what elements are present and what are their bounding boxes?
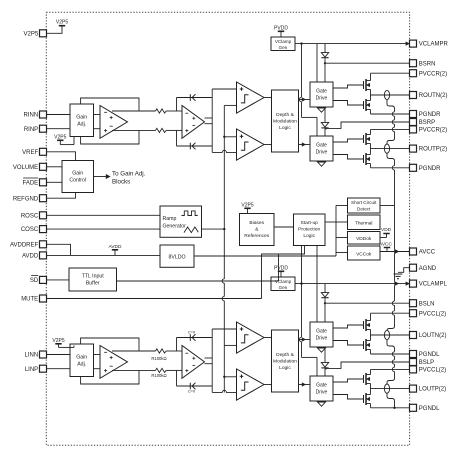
svg-text:Logic: Logic xyxy=(303,233,315,239)
svg-text:Logic: Logic xyxy=(279,125,291,131)
svg-text:BSRN: BSRN xyxy=(419,61,436,67)
svg-text:Drive: Drive xyxy=(316,150,328,156)
svg-text:PVDD: PVDD xyxy=(274,26,288,32)
svg-text:VDD: VDD xyxy=(381,227,392,233)
svg-text:LINN: LINN xyxy=(25,353,39,359)
svg-text:References: References xyxy=(244,233,270,239)
svg-text:Buffer: Buffer xyxy=(86,281,100,287)
svg-text:BSRP: BSRP xyxy=(419,120,435,126)
svg-text:PVCCR(2): PVCCR(2) xyxy=(419,128,447,134)
svg-text:V2P5: V2P5 xyxy=(56,20,68,26)
svg-text:PGNDL: PGNDL xyxy=(419,352,440,358)
svg-text:VCLAMPL: VCLAMPL xyxy=(419,282,448,288)
svg-text:Modulation: Modulation xyxy=(273,119,297,125)
svg-text:VCCok: VCCok xyxy=(356,252,372,258)
svg-text:AVCC: AVCC xyxy=(379,241,393,247)
svg-text:AVCC: AVCC xyxy=(419,250,436,256)
svg-text:LINP: LINP xyxy=(25,367,38,373)
svg-text:Detect: Detect xyxy=(357,207,371,212)
svg-text:PGNDR: PGNDR xyxy=(419,166,441,172)
svg-text:Gain: Gain xyxy=(76,115,87,121)
svg-text:RINN: RINN xyxy=(24,113,39,119)
svg-text:R100kΩ: R100kΩ xyxy=(151,356,166,361)
svg-text:PGNDL: PGNDL xyxy=(419,406,440,412)
svg-text:Gain: Gain xyxy=(72,171,83,177)
svg-text:Gate: Gate xyxy=(316,89,327,95)
svg-text:V2P5: V2P5 xyxy=(52,338,64,344)
svg-text:Blocks: Blocks xyxy=(112,179,130,186)
svg-text:AVDD: AVDD xyxy=(22,254,39,260)
svg-text:COSC: COSC xyxy=(21,227,39,233)
svg-text:MUTE: MUTE xyxy=(21,297,38,303)
svg-text:Biases: Biases xyxy=(249,220,264,226)
svg-text:BSLP: BSLP xyxy=(419,360,434,366)
svg-text:ROUTN(2): ROUTN(2) xyxy=(419,93,448,99)
svg-text:VCLAMPR: VCLAMPR xyxy=(419,42,449,48)
svg-text:AVDD: AVDD xyxy=(109,244,123,250)
svg-text:TTL Input: TTL Input xyxy=(82,274,105,280)
svg-text:8VLDO: 8VLDO xyxy=(168,255,185,261)
svg-text:Depth &: Depth & xyxy=(276,112,294,118)
svg-text:PGNDR: PGNDR xyxy=(419,112,441,118)
svg-text:To Gain Adj.: To Gain Adj. xyxy=(112,170,146,177)
svg-text:REFGND: REFGND xyxy=(13,196,39,202)
svg-text:Control: Control xyxy=(69,178,86,184)
svg-text:Protection: Protection xyxy=(298,227,320,233)
svg-text:ROSC: ROSC xyxy=(21,213,39,219)
svg-text:PVCCL(2): PVCCL(2) xyxy=(419,311,446,317)
svg-text:C=0: C=0 xyxy=(188,330,196,335)
svg-text:V2P5: V2P5 xyxy=(54,135,66,141)
svg-text:VREF: VREF xyxy=(22,150,38,156)
svg-text:PVCCL(2): PVCCL(2) xyxy=(419,368,446,374)
svg-text:VClamp: VClamp xyxy=(275,39,292,44)
svg-text:ROUTP(2): ROUTP(2) xyxy=(419,147,447,153)
svg-text:Generator: Generator xyxy=(163,224,187,230)
svg-text:V2P5: V2P5 xyxy=(241,203,253,209)
svg-text:RINP: RINP xyxy=(24,127,38,133)
svg-text:VDDok: VDDok xyxy=(356,236,372,242)
svg-text:Drive: Drive xyxy=(316,96,328,102)
svg-text:Start-up: Start-up xyxy=(300,220,318,226)
svg-text:Adj.: Adj. xyxy=(77,122,86,128)
svg-text:BSLN: BSLN xyxy=(419,301,435,307)
svg-text:AVDDREF: AVDDREF xyxy=(10,242,39,248)
svg-text:Gen: Gen xyxy=(279,45,288,50)
svg-text:Short Circuit: Short Circuit xyxy=(351,200,377,205)
svg-text:LOUTP(2): LOUTP(2) xyxy=(419,387,446,393)
svg-text:C=0: C=0 xyxy=(188,389,196,394)
svg-text:Gate: Gate xyxy=(316,143,327,149)
svg-text:R100kΩ: R100kΩ xyxy=(151,373,166,378)
svg-text:LOUTN(2): LOUTN(2) xyxy=(419,333,447,339)
svg-text:AGND: AGND xyxy=(419,266,437,272)
svg-text:Thermal: Thermal xyxy=(355,221,373,227)
svg-text:V2P5: V2P5 xyxy=(24,31,39,37)
svg-text:SD: SD xyxy=(30,278,39,284)
svg-text:FADE: FADE xyxy=(23,180,39,186)
svg-text:PVCCR(2): PVCCR(2) xyxy=(419,71,447,77)
svg-text:VOLUME: VOLUME xyxy=(13,165,38,171)
svg-text:Ramp: Ramp xyxy=(163,216,177,222)
